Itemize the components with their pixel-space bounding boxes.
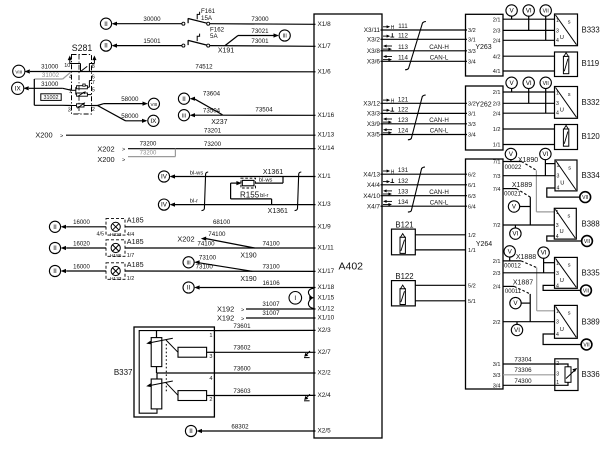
arrow into II 16106 bbox=[194, 285, 199, 289]
connection III (73021) bbox=[279, 30, 290, 41]
svg-text:H: H bbox=[391, 98, 395, 104]
svg-text:B335: B335 bbox=[582, 268, 601, 277]
svg-text:132: 132 bbox=[398, 178, 409, 185]
svg-text:6/1: 6/1 bbox=[468, 183, 476, 189]
svg-text:X1/12: X1/12 bbox=[318, 306, 335, 313]
S281 pin 10 off-page arrow bbox=[64, 56, 72, 70]
potentiometer 2 in B337 bbox=[146, 373, 178, 409]
svg-text:X1/13: X1/13 bbox=[318, 132, 335, 139]
svg-text:s: s bbox=[568, 19, 571, 25]
svg-text:7/4: 7/4 bbox=[493, 187, 501, 193]
svg-text:s: s bbox=[568, 263, 571, 269]
svg-text:IV: IV bbox=[161, 202, 168, 209]
arrow into II row3 bbox=[61, 269, 66, 273]
B337 pin numbers bbox=[209, 333, 212, 403]
svg-text:8: 8 bbox=[92, 64, 95, 70]
svg-text:3: 3 bbox=[556, 271, 559, 277]
svg-text:X202: X202 bbox=[97, 144, 114, 153]
connection VI (B388 group) bbox=[510, 228, 521, 239]
svg-text:2/4: 2/4 bbox=[493, 285, 501, 291]
svg-text:IX: IX bbox=[150, 118, 157, 125]
svg-text:73201: 73201 bbox=[204, 127, 222, 134]
connection V (B335 group) bbox=[504, 246, 515, 257]
svg-text:4: 4 bbox=[556, 332, 559, 338]
svg-text:s: s bbox=[568, 214, 571, 220]
wire 73000 bbox=[210, 23, 316, 26]
wire Y262 2/1 to B332 pin 1 bbox=[503, 91, 555, 93]
svg-text:3/3: 3/3 bbox=[468, 49, 476, 55]
svg-text:3: 3 bbox=[556, 372, 559, 378]
svg-text:X200: X200 bbox=[35, 131, 52, 140]
svg-text:CAN-L: CAN-L bbox=[430, 55, 449, 62]
svg-text:4/2: 4/2 bbox=[493, 54, 501, 60]
svg-text:B334: B334 bbox=[582, 171, 601, 180]
svg-text:VI: VI bbox=[541, 250, 547, 257]
shield mark at X2/7 bbox=[304, 351, 310, 358]
svg-text:H: H bbox=[391, 169, 395, 175]
svg-text:A185: A185 bbox=[127, 260, 144, 269]
svg-text:1: 1 bbox=[556, 90, 559, 96]
svg-text:134: 134 bbox=[398, 199, 409, 206]
svg-text:00012: 00012 bbox=[504, 264, 521, 270]
connection IV (bl-r) bbox=[158, 199, 169, 210]
svg-text:X1/9: X1/9 bbox=[318, 223, 332, 230]
svg-text:VIII: VIII bbox=[151, 102, 158, 107]
svg-text:X200: X200 bbox=[97, 155, 114, 164]
svg-text:bl-r: bl-r bbox=[190, 199, 198, 205]
svg-text:3: 3 bbox=[557, 174, 560, 180]
svg-text:VII: VII bbox=[543, 9, 549, 15]
svg-text:73200: 73200 bbox=[140, 150, 157, 156]
svg-text:3/4: 3/4 bbox=[493, 384, 501, 390]
svg-text:1: 1 bbox=[556, 210, 559, 216]
svg-text:4: 4 bbox=[556, 38, 559, 44]
valve block Y262 box bbox=[466, 86, 504, 150]
svg-text:1/2: 1/2 bbox=[127, 276, 135, 282]
svg-text:U: U bbox=[560, 327, 564, 333]
svg-text:X1361: X1361 bbox=[268, 208, 288, 215]
S281 section 2 contacts (pins 1,7,5) bbox=[69, 80, 95, 96]
arrow into II from X237 bbox=[190, 97, 195, 101]
wire 31002 boxed label to S281 pin 3 bbox=[34, 94, 71, 106]
arrow into IV bottom bbox=[170, 203, 175, 207]
connection VII (B388) bbox=[582, 236, 593, 247]
svg-text:I: I bbox=[294, 295, 296, 302]
svg-text:2/3: 2/3 bbox=[493, 102, 501, 108]
svg-text:B336: B336 bbox=[582, 370, 600, 379]
svg-text:X3/2: X3/2 bbox=[367, 37, 381, 44]
VII stub bbox=[545, 88, 547, 113]
svg-text:73001: 73001 bbox=[251, 38, 269, 45]
svg-text:s: s bbox=[568, 92, 571, 98]
svg-text:IV: IV bbox=[161, 174, 168, 181]
wire B121 to Y264 1/1 bbox=[415, 249, 465, 251]
svg-text:CAN-H: CAN-H bbox=[429, 189, 449, 196]
svg-text:1: 1 bbox=[209, 333, 212, 339]
svg-text:bl-r: bl-r bbox=[260, 193, 268, 199]
svg-text:1: 1 bbox=[556, 309, 559, 315]
svg-text:X1/3: X1/3 bbox=[318, 201, 332, 208]
resistor R155 bbox=[240, 178, 260, 199]
svg-text:X1/18: X1/18 bbox=[318, 284, 335, 291]
svg-text:121: 121 bbox=[398, 96, 409, 103]
svg-text:III: III bbox=[182, 113, 186, 119]
wiper resistor 2 in B337 bbox=[178, 391, 214, 401]
node X190 branch to X202 bbox=[177, 231, 256, 259]
sensor B120 box bbox=[555, 125, 601, 150]
ECU A402 box bbox=[314, 14, 382, 438]
wire 00011 to B389 pin 3 bbox=[529, 294, 531, 322]
svg-text:X1/14: X1/14 bbox=[318, 145, 335, 152]
svg-text:31007: 31007 bbox=[262, 310, 280, 317]
sensor B388 bbox=[554, 208, 599, 240]
connection V (B388 group) bbox=[508, 201, 519, 212]
svg-text:Y263: Y263 bbox=[475, 44, 491, 51]
svg-text:114: 114 bbox=[398, 54, 408, 61]
svg-text:X1/16: X1/16 bbox=[318, 112, 335, 119]
V stub bbox=[511, 88, 513, 92]
wire bl-r to X1/3 bbox=[175, 199, 316, 216]
svg-text:5/2: 5/2 bbox=[468, 284, 476, 290]
connection VII (B389) bbox=[581, 339, 592, 350]
svg-text:X3/3: X3/3 bbox=[367, 111, 381, 118]
wire 16000 bbox=[66, 270, 106, 272]
svg-text:73100: 73100 bbox=[199, 255, 217, 262]
svg-text:>: > bbox=[241, 308, 244, 314]
wire Y264 7/1 bbox=[503, 161, 521, 163]
arrow into II 68302 bbox=[197, 429, 202, 433]
wire Y262 1/2 to B120 bbox=[503, 128, 555, 130]
Y262 left pin labels bbox=[468, 102, 476, 139]
svg-text:31007: 31007 bbox=[262, 301, 280, 308]
svg-text:II: II bbox=[53, 224, 57, 231]
arrow into II row1 bbox=[112, 22, 117, 26]
CAN wire group 121-124 bbox=[381, 96, 468, 134]
Y264 right pin labels bbox=[493, 160, 501, 390]
svg-text:73200: 73200 bbox=[204, 141, 222, 148]
svg-text:>: > bbox=[122, 147, 125, 153]
wire into R155 with arrow bbox=[231, 181, 242, 185]
wire 58000 branch to IX bbox=[98, 106, 148, 123]
twisted pair slash left bbox=[202, 172, 209, 211]
gray wire 00022 to B388 pin 1 bbox=[536, 170, 554, 212]
connection V (Y263) bbox=[506, 5, 517, 16]
inline connector X1887 dashes bbox=[514, 286, 530, 294]
arrow into III from X237 bbox=[190, 113, 195, 117]
svg-text:X2/2: X2/2 bbox=[318, 370, 332, 377]
wire 74512 to X1/6 bbox=[92, 71, 316, 73]
svg-text:X4/4: X4/4 bbox=[367, 182, 381, 189]
svg-text:3: 3 bbox=[556, 320, 559, 326]
svg-text:73603: 73603 bbox=[233, 388, 251, 395]
wire 00021 to B388 pin 3 bbox=[529, 197, 531, 225]
svg-text:3: 3 bbox=[209, 354, 212, 360]
connection II (68302) bbox=[185, 425, 196, 436]
svg-text:3: 3 bbox=[556, 223, 559, 229]
svg-text:3: 3 bbox=[556, 29, 559, 35]
connection IX (58000) bbox=[148, 115, 159, 126]
valve block Y263 box bbox=[466, 14, 504, 76]
CAN wire group 131-134 bbox=[381, 167, 468, 206]
svg-text:73601: 73601 bbox=[233, 323, 251, 330]
svg-text:X3/11: X3/11 bbox=[364, 27, 381, 34]
svg-text:X1/11: X1/11 bbox=[318, 245, 335, 252]
svg-text:73600: 73600 bbox=[233, 365, 251, 372]
VII stub bbox=[545, 16, 547, 41]
svg-text:X190: X190 bbox=[240, 276, 256, 283]
svg-text:X3/8: X3/8 bbox=[367, 48, 381, 55]
wire Y262 2/4 to B332 pin 4 bbox=[503, 112, 555, 114]
A402 right pin labels X3/X4 bbox=[363, 27, 380, 210]
svg-text:bl-ws: bl-ws bbox=[259, 177, 273, 183]
wire 73100 to X1/17 bbox=[125, 270, 316, 272]
svg-text:2/1: 2/1 bbox=[493, 90, 501, 96]
wire Y262 1/1 to B120 bbox=[503, 144, 555, 146]
svg-text:5A: 5A bbox=[210, 33, 218, 40]
wire Y263 4/1 to B119 bbox=[503, 70, 555, 72]
svg-text:X4/7: X4/7 bbox=[367, 203, 381, 210]
svg-text:IX: IX bbox=[15, 85, 22, 92]
svg-text:>: > bbox=[241, 317, 244, 323]
svg-text:U: U bbox=[560, 229, 564, 235]
wire 68100 to X1/9 bbox=[125, 226, 316, 228]
connection VIII (58000) bbox=[148, 98, 159, 109]
wire 15001 bbox=[117, 45, 182, 47]
svg-text:II: II bbox=[189, 428, 193, 435]
connection VI (B389 group) bbox=[511, 324, 522, 335]
wire Y264 3/4 to B336 pin 1 bbox=[503, 384, 555, 386]
svg-text:7/2: 7/2 bbox=[493, 223, 501, 229]
svg-text:X202: X202 bbox=[177, 234, 194, 243]
svg-text:A402: A402 bbox=[339, 261, 364, 273]
svg-text:III: III bbox=[283, 34, 287, 40]
svg-text:VI: VI bbox=[514, 327, 520, 334]
svg-text:VI: VI bbox=[526, 80, 532, 87]
shield mark at X2/4 bbox=[304, 394, 310, 401]
svg-text:X1/6: X1/6 bbox=[318, 68, 332, 75]
fuse F161 15A bbox=[182, 8, 216, 25]
wire 74100 to X1/11 bbox=[125, 247, 316, 249]
svg-text:CAN-L: CAN-L bbox=[430, 199, 449, 206]
svg-text:00022: 00022 bbox=[505, 165, 522, 171]
svg-text:131: 131 bbox=[398, 167, 409, 174]
svg-text:31000: 31000 bbox=[41, 64, 59, 71]
svg-text:Y264: Y264 bbox=[476, 241, 492, 248]
arrow into IX bbox=[23, 86, 28, 90]
svg-text:U: U bbox=[560, 278, 564, 284]
svg-text:122: 122 bbox=[398, 106, 409, 113]
Y262 right pin labels bbox=[493, 90, 501, 149]
Y264 left pin labels bbox=[468, 172, 476, 305]
wire Y264 2/3 to B335 pin 3 bbox=[503, 272, 555, 274]
svg-text:3/1: 3/1 bbox=[493, 362, 501, 368]
VI stub bbox=[528, 88, 530, 103]
svg-text:VI: VI bbox=[542, 151, 548, 158]
wire 73604 diagonal bbox=[195, 99, 223, 115]
svg-text:123: 123 bbox=[398, 117, 409, 124]
svg-text:124: 124 bbox=[398, 128, 409, 135]
svg-text:4: 4 bbox=[209, 376, 212, 382]
wire 16020 bbox=[66, 247, 106, 249]
svg-text:4: 4 bbox=[557, 186, 560, 192]
svg-text:16000: 16000 bbox=[73, 220, 90, 226]
svg-text:VII: VII bbox=[582, 195, 588, 201]
svg-text:CAN-H: CAN-H bbox=[429, 44, 449, 51]
svg-text:X1888: X1888 bbox=[516, 254, 536, 261]
valve block Y264 box bbox=[466, 159, 504, 389]
svg-text:II: II bbox=[182, 96, 186, 103]
svg-text:4/1: 4/1 bbox=[493, 69, 501, 75]
wire 73601 to X2/3 bbox=[214, 329, 315, 331]
connector X200 wire 73201 to X1/13 bbox=[35, 127, 315, 139]
svg-text:X237: X237 bbox=[211, 119, 227, 126]
sensor B334 bbox=[555, 160, 600, 192]
connection VIII left bbox=[13, 65, 25, 77]
V stub bbox=[519, 206, 530, 208]
svg-text:Y262: Y262 bbox=[475, 102, 491, 109]
svg-text:X1889: X1889 bbox=[512, 182, 532, 189]
svg-text:X3/9: X3/9 bbox=[367, 121, 381, 128]
R155 loop wiring bbox=[231, 177, 283, 205]
wire 73600 to X2/2 bbox=[214, 372, 315, 374]
mechanical link dashed bbox=[165, 344, 167, 393]
switch S281 dash-dot box bbox=[72, 43, 93, 114]
VI stub bbox=[516, 322, 518, 325]
connection V (Y262) bbox=[506, 77, 517, 88]
svg-text:00021: 00021 bbox=[504, 192, 521, 198]
svg-text:2/3: 2/3 bbox=[493, 271, 501, 277]
svg-text:3/4: 3/4 bbox=[468, 133, 476, 139]
wire Y263 4/2 to B119 bbox=[503, 55, 555, 57]
svg-text:2/1: 2/1 bbox=[493, 17, 501, 23]
connection III (73100) bbox=[183, 257, 194, 268]
sensor B119 box bbox=[555, 52, 600, 77]
fuse F162 5A bbox=[182, 27, 225, 48]
arrow into II row1 bbox=[61, 225, 66, 229]
connection IX left bbox=[12, 82, 24, 94]
svg-text:3/4: 3/4 bbox=[468, 60, 476, 66]
svg-text:A185: A185 bbox=[127, 237, 144, 246]
svg-text:II: II bbox=[53, 268, 57, 275]
svg-text:4: 4 bbox=[556, 234, 559, 240]
wire Y264 2/1 bbox=[503, 260, 521, 262]
svg-text:VIII: VIII bbox=[15, 69, 22, 74]
svg-text:73304: 73304 bbox=[514, 357, 532, 364]
svg-text:2/4: 2/4 bbox=[493, 39, 501, 45]
wire Y263 2/1 to B333 pin 1 bbox=[503, 18, 555, 20]
svg-text:VII: VII bbox=[583, 289, 589, 295]
svg-text:58000: 58000 bbox=[121, 113, 139, 120]
svg-text:3/3: 3/3 bbox=[493, 373, 501, 379]
inline connector X1890 dashes bbox=[521, 162, 536, 171]
svg-text:3/3: 3/3 bbox=[468, 122, 476, 128]
svg-text:7/3: 7/3 bbox=[493, 174, 501, 180]
sensor B389 bbox=[555, 305, 600, 338]
wire Y264 7/2 to B388 pin 3 bbox=[503, 224, 554, 226]
wire Y264 7/3 to B334 pin 3 bbox=[503, 175, 555, 177]
svg-text:VII: VII bbox=[583, 343, 589, 349]
svg-text:1: 1 bbox=[556, 261, 559, 267]
svg-text:1/7: 1/7 bbox=[127, 253, 135, 259]
svg-text:X3/5: X3/5 bbox=[367, 132, 381, 139]
wiper resistor 1 in B337 bbox=[178, 347, 214, 357]
svg-text:B332: B332 bbox=[582, 98, 600, 107]
connection II (16000) bbox=[49, 221, 60, 232]
connection VI (B335 group) bbox=[538, 247, 549, 258]
wire 31002 gray branch bbox=[34, 72, 70, 79]
pair slash group 2 bbox=[408, 95, 426, 140]
connection III (73504) bbox=[178, 110, 189, 121]
wire 73504 from X237 to III bbox=[195, 114, 223, 116]
wire junction vertical 31002 bbox=[33, 79, 35, 105]
twisted pair slash right bbox=[295, 172, 302, 211]
svg-text:X2/5: X2/5 bbox=[318, 428, 332, 435]
inline connector X1889 dashes bbox=[516, 189, 530, 198]
svg-text:3/1: 3/1 bbox=[468, 112, 476, 118]
svg-text:X1/15: X1/15 bbox=[318, 294, 335, 301]
svg-text:X1/7: X1/7 bbox=[318, 43, 332, 50]
svg-text:74100: 74100 bbox=[208, 231, 226, 238]
wire Y264 3/1 to B336 pin 2 bbox=[503, 363, 555, 365]
A402 left pin labels X1/X2 bbox=[318, 21, 335, 435]
svg-text:3/1: 3/1 bbox=[468, 38, 476, 44]
wire 68302 to X2/5 bbox=[202, 430, 316, 432]
svg-text:7/1: 7/1 bbox=[493, 160, 501, 166]
lamp H186 in dashed box A185 bbox=[106, 240, 134, 259]
svg-text:X1/10: X1/10 bbox=[318, 314, 335, 321]
svg-text:H: H bbox=[391, 25, 395, 31]
svg-text:X4/10: X4/10 bbox=[363, 193, 380, 200]
svg-text:3/2: 3/2 bbox=[468, 28, 476, 34]
sensor B333 bbox=[555, 14, 600, 46]
gray wire Y264 3/3 to B336 pin 3 bbox=[503, 374, 555, 376]
svg-text:II: II bbox=[104, 43, 108, 50]
node X190 branch to III bbox=[194, 255, 257, 283]
connection II top row 1 bbox=[100, 18, 111, 29]
connection II top row 2 bbox=[100, 40, 111, 51]
svg-text:73604: 73604 bbox=[203, 90, 221, 97]
svg-text:73504: 73504 bbox=[203, 108, 221, 115]
svg-text:2/1: 2/1 bbox=[493, 259, 501, 265]
connection VI (Y262) bbox=[523, 77, 534, 88]
Y263 left pin labels bbox=[468, 28, 476, 65]
svg-text:>: > bbox=[122, 158, 125, 164]
svg-text:31002: 31002 bbox=[44, 95, 59, 101]
svg-text:H323: H323 bbox=[110, 232, 122, 238]
svg-text:16000: 16000 bbox=[73, 264, 90, 270]
connection VI (B334 group) bbox=[540, 148, 551, 159]
arrow into IV top bbox=[170, 174, 175, 178]
svg-text:74300: 74300 bbox=[514, 378, 532, 385]
wire 73602 to X2/7 bbox=[214, 351, 315, 353]
svg-text:7: 7 bbox=[92, 80, 95, 86]
svg-text:2/4: 2/4 bbox=[493, 111, 501, 117]
svg-text:X192: X192 bbox=[217, 314, 234, 323]
wire 16000 bbox=[66, 226, 106, 228]
svg-text:U: U bbox=[560, 35, 564, 41]
wire Y263 2/3 to B333 pin 3 bbox=[503, 29, 555, 31]
potentiometer 1 in B337 bbox=[146, 331, 178, 373]
connection I bbox=[289, 292, 302, 305]
wire 16106 to X1/18 bbox=[200, 287, 316, 289]
connector X192 wire 31007 to X1/12 bbox=[217, 301, 316, 314]
svg-text:3/2: 3/2 bbox=[468, 102, 476, 108]
svg-text:B120: B120 bbox=[582, 132, 601, 141]
svg-text:B337: B337 bbox=[114, 368, 133, 377]
svg-text:2: 2 bbox=[92, 107, 95, 113]
svg-text:16020: 16020 bbox=[73, 241, 90, 247]
V stub bbox=[510, 159, 512, 161]
